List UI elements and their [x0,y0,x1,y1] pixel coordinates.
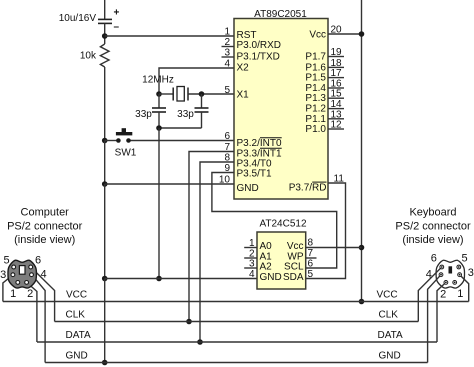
wire right cap top lead [201,94,203,108]
U2 pin 1 A0 [244,247,257,249]
wire X2 from pin4 to crystal rail [159,68,234,94]
wire J2 pin2 to DATA bus [437,282,446,342]
J2 key notch [449,266,453,273]
J1 pin hole 3 [11,273,15,277]
switch SW1 [105,128,234,158]
svg-text:12: 12 [331,120,343,131]
node pin10 row junction [102,181,108,187]
bus row VCC [3,301,469,303]
svg-text:AT24C512: AT24C512 [259,219,307,230]
svg-text:17: 17 [331,68,343,79]
node pin7 CLK junction [186,319,192,325]
svg-text:+: + [114,8,120,19]
svg-text:P1.3: P1.3 [305,93,326,104]
svg-text:6: 6 [431,253,437,265]
node pin8 DATA junction [197,339,203,345]
caption Keyboard PS/2 connector [395,207,471,247]
node pin20 Vcc junction [359,31,365,37]
svg-text:33p: 33p [177,109,194,120]
capacitor C2 33p left [135,108,166,120]
svg-text:P1.5: P1.5 [305,73,326,84]
node crystal rail gnd tie junction [156,276,162,282]
capacitor C3 33p right [177,108,208,120]
wire Vcc vertical from top [361,0,363,302]
wire crystal rail down to gnd tie [158,128,160,279]
svg-text:6: 6 [224,131,230,142]
svg-text:X2: X2 [237,63,250,74]
U1 pin 15 P1.3 [328,97,344,99]
U1 pin 12 P1.0 [328,128,344,130]
svg-text:1: 1 [10,288,16,300]
U1 pin 13 P1.1 [328,118,344,120]
svg-text:1: 1 [249,238,255,249]
wire left rail down to gnd tie [104,184,106,279]
IC U2 AT24C512 [257,219,307,289]
capacitor C1 10u/16V [59,8,120,33]
svg-text:10u/16V: 10u/16V [59,13,97,24]
wire crystal left plate [159,93,173,95]
connector J1 Computer PS/2 body [8,260,36,288]
svg-text:P3.7/RD: P3.7/RD [289,182,327,193]
svg-text:5: 5 [461,253,467,265]
svg-text:20: 20 [331,25,343,36]
svg-text:PS/2 connector: PS/2 connector [395,221,471,233]
wire J1 pin4 to GND bus [32,275,45,363]
svg-text:4: 4 [224,59,230,70]
svg-text:3: 3 [249,259,255,270]
node gnd tie junction [102,276,108,282]
resistor R1 10k [80,44,109,67]
svg-text:P3.0/RXD: P3.0/RXD [237,40,281,51]
J2 pin hole 5 [457,265,461,269]
svg-text:AT89C2051: AT89C2051 [254,9,307,20]
svg-text:DATA: DATA [66,330,92,341]
U1 pin 17 P1.5 [328,77,344,79]
svg-text:GND: GND [379,351,401,362]
node RST junction [102,33,108,39]
U1 pin 2 P3.0/RXD [222,46,235,48]
svg-text:–: – [114,22,120,33]
svg-text:8: 8 [308,238,314,249]
J2 pin hole 6 [440,265,444,269]
U2 pin 2 A1 [244,257,257,259]
wire J2 pin3 to VCC bus [460,275,469,302]
wire RST row to pin 1 [105,35,234,37]
node SW1 row junction [102,138,108,144]
U1 pin 18 P1.6 [328,66,344,68]
svg-text:DATA: DATA [378,330,404,341]
wire C2 bottom lead [158,112,160,128]
svg-text:P1.0: P1.0 [305,124,326,135]
U1 pin 14 P1.2 [328,108,344,110]
wire caps bottom row [159,127,202,129]
wire crystal right plate to pin 5 X1 [188,93,234,95]
node GND bus junction [102,360,108,366]
svg-text:4: 4 [40,269,46,281]
U1 pin 16 P1.4 [328,87,344,89]
J2 pin hole 2 [444,281,448,285]
svg-text:Vcc: Vcc [287,241,304,252]
wire U1 pin10 GND row [105,183,234,185]
J1 pin hole 2 [25,281,29,285]
U2 pin 3 A2 [244,267,257,269]
svg-text:A0: A0 [260,241,273,252]
wire J1 pin6 to CLK bus [31,267,55,322]
svg-text:5: 5 [224,85,230,96]
svg-text:3: 3 [0,269,6,281]
wire C3 bottom lead [201,112,203,128]
wire U1 pin8 to DATA bus [200,162,234,342]
svg-text:PS/2 connector: PS/2 connector [7,221,83,233]
svg-text:33p: 33p [135,109,152,120]
svg-text:1: 1 [457,288,463,300]
svg-text:5: 5 [3,255,9,267]
svg-text:GND: GND [66,351,88,362]
svg-text:3: 3 [468,267,474,279]
svg-text:10k: 10k [80,50,97,61]
wire U1 pin9 to U2 SCL [212,173,337,269]
svg-text:VCC: VCC [377,290,398,301]
wire +5V top-left lead into C1 [104,0,106,19]
bus row CLK [55,321,419,323]
svg-text:5: 5 [308,269,314,280]
wire J2 pin6 to CLK bus [418,267,442,322]
wire left rail down to GND bus [104,279,106,363]
svg-text:P3.5/T1: P3.5/T1 [237,169,272,180]
svg-text:(inside view): (inside view) [402,234,463,246]
U1 pin 19 P1.7 [328,56,344,58]
svg-text:7: 7 [308,248,314,259]
bus row DATA [37,341,437,343]
wire left rail R1 to SW1 row [104,67,106,141]
node crystal right junction [199,91,205,97]
wire U1 pin7 to CLK bus [189,152,234,322]
svg-text:15: 15 [331,89,343,100]
wire J1 pin2 to DATA bus [27,283,37,342]
svg-text:CLK: CLK [66,310,86,321]
svg-text:A2: A2 [260,262,273,273]
caption Computer PS/2 connector [7,207,83,247]
node crystal left junction [156,91,162,97]
wire C1 bottom to RST node [104,23,106,44]
wire J1 pin3 to VCC bus [3,275,13,302]
svg-text:(inside view): (inside view) [14,234,75,246]
svg-text:GND: GND [260,272,282,283]
svg-text:P3.2/INT0: P3.2/INT0 [237,138,282,149]
svg-text:6: 6 [308,259,314,270]
svg-text:2: 2 [27,288,33,300]
svg-text:P3.1/TXD: P3.1/TXD [237,52,280,63]
svg-text:2: 2 [224,37,230,48]
U1 pin 20 Vcc [328,33,362,35]
wire left rail down to pin10 row [104,141,106,185]
J2 pin hole 4 [439,273,443,277]
svg-text:CLK: CLK [379,310,399,321]
svg-text:2: 2 [440,289,446,301]
svg-text:12MHz: 12MHz [142,74,174,85]
wire gnd tie row to U2 pin 4 [105,278,257,280]
svg-text:3: 3 [224,48,230,59]
node caps bottom junction [156,125,162,131]
J2 pin hole 1 [453,281,457,285]
svg-text:1: 1 [224,27,230,38]
svg-text:VCC: VCC [66,290,87,301]
J2 pin hole 3 [458,273,462,277]
svg-text:4: 4 [426,269,432,281]
J1 pin hole 6 [29,265,33,269]
connector J2 Keyboard PS/2 body [436,260,464,288]
wire J2 pin4 to GND bus [428,275,441,363]
svg-text:P1.7: P1.7 [305,52,326,63]
svg-text:Computer: Computer [21,207,70,219]
svg-text:19: 19 [331,47,343,58]
svg-text:SCL: SCL [284,262,304,273]
J1 pin hole 5 [12,265,16,269]
svg-text:SW1: SW1 [115,148,137,159]
wire crystal rail down to C2 [158,94,160,108]
U2 pin 7 WP stub [306,257,317,259]
svg-text:GND: GND [237,183,259,194]
J1 pin hole 4 [30,273,34,277]
wire U1 pin11 to U2 SDA [306,183,346,279]
svg-text:Vcc: Vcc [309,30,326,41]
svg-text:Keyboard: Keyboard [409,207,456,219]
svg-text:6: 6 [35,255,41,267]
node U2 Vcc junction [359,245,365,251]
J1 key notch [19,266,25,275]
svg-text:4: 4 [249,269,255,280]
U2 pin 8 Vcc wire [306,247,362,249]
svg-text:X1: X1 [237,90,250,101]
svg-text:SDA: SDA [283,272,304,283]
IC U1 AT89C2051 [234,9,328,199]
bus row GND [45,362,428,364]
J1 pin hole 1 [16,281,20,285]
crystal XTAL 12MHz [142,74,188,101]
node VCC bus junction [359,299,365,305]
U1 pin 3 P3.1/TXD [222,56,235,58]
